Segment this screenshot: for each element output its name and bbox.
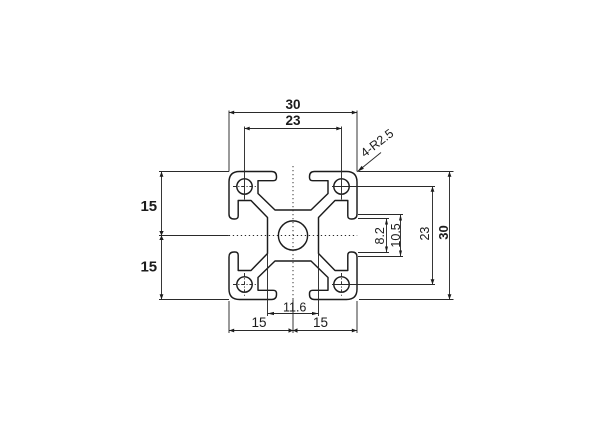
svg-text:8.2: 8.2 — [373, 227, 387, 244]
svg-text:15: 15 — [251, 315, 266, 330]
svg-text:23: 23 — [418, 227, 432, 241]
svg-text:10.5: 10.5 — [389, 223, 403, 247]
svg-text:15: 15 — [313, 315, 328, 330]
svg-text:23: 23 — [285, 113, 301, 128]
svg-text:15: 15 — [140, 259, 157, 276]
svg-text:30: 30 — [285, 97, 300, 112]
svg-text:30: 30 — [436, 225, 451, 239]
svg-text:15: 15 — [140, 198, 157, 215]
svg-text:11.6: 11.6 — [283, 301, 306, 315]
